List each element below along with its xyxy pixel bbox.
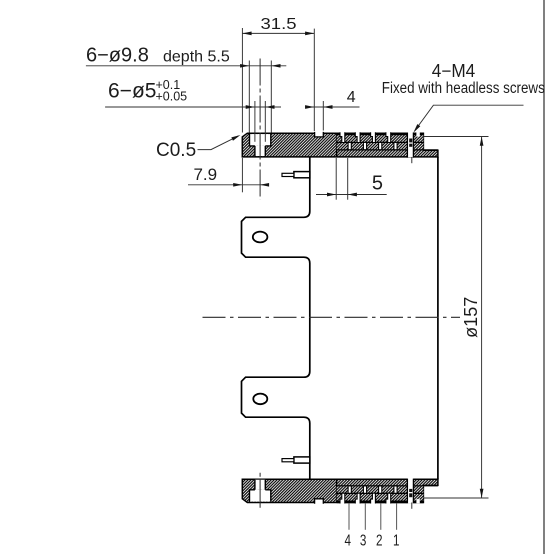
hole centerline bottom bbox=[259, 473, 261, 509]
top flange (section, hatched) bbox=[242, 133, 438, 157]
svg-text:6−ø9.8: 6−ø9.8 bbox=[86, 44, 149, 66]
svg-text:2: 2 bbox=[376, 533, 383, 550]
hole in top tab bbox=[253, 232, 268, 243]
dimension 7.9 bbox=[188, 158, 268, 192]
svg-text:4−M4: 4−M4 bbox=[432, 61, 476, 81]
dimension 5 bbox=[316, 158, 387, 200]
wire terminal bottom bbox=[282, 457, 310, 463]
body outline right bbox=[437, 157, 439, 479]
dimension 31.5 bbox=[242, 28, 314, 133]
bottom flange (section, hatched) bbox=[242, 479, 438, 502]
hole in bottom tab bbox=[253, 394, 267, 405]
dimension Ø157 bbox=[423, 137, 488, 499]
svg-text:6−ø5: 6−ø5 bbox=[108, 80, 156, 103]
through hole Ø5 top flange bbox=[255, 146, 265, 156]
headless screw M4 top bbox=[407, 132, 413, 163]
svg-text:7.9: 7.9 bbox=[193, 165, 217, 184]
svg-text:4: 4 bbox=[347, 89, 356, 106]
comb ring grooves bottom flange bbox=[337, 479, 438, 503]
callout 6-Ø9.8 depth 5.5 bbox=[86, 61, 286, 133]
counterbore hole Ø9.8 bottom flange bbox=[250, 490, 271, 502]
svg-text:5: 5 bbox=[372, 173, 383, 195]
svg-text:Fixed with headless screws: Fixed with headless screws bbox=[382, 80, 545, 97]
notch 4mm top flange bbox=[315, 132, 324, 137]
notch 4mm bottom flange bbox=[315, 499, 324, 504]
through hole Ø5 bottom flange bbox=[255, 480, 265, 490]
body outline left with mounting tabs bbox=[242, 157, 310, 479]
ring position leaders 4 3 2 1 bbox=[349, 503, 397, 529]
svg-text:4: 4 bbox=[344, 533, 351, 550]
svg-text:C0.5: C0.5 bbox=[156, 140, 196, 161]
horizontal centerline bbox=[203, 316, 461, 318]
svg-text:ø157: ø157 bbox=[461, 297, 481, 338]
wire terminal top bbox=[282, 172, 310, 178]
counterbore hole Ø9.8 top flange bbox=[250, 134, 271, 146]
dimension 4 (notch) bbox=[305, 101, 360, 131]
hole centerline top bbox=[259, 59, 261, 200]
svg-text:+0.05: +0.05 bbox=[156, 90, 188, 104]
svg-text:3: 3 bbox=[360, 533, 367, 550]
callout 6-Ø5 +0.1/+0.05 bbox=[105, 101, 281, 142]
leader C0.5 chamfer bbox=[198, 136, 239, 150]
comb ring grooves top flange bbox=[337, 132, 438, 157]
svg-text:1: 1 bbox=[393, 533, 400, 550]
headless screw M4 bottom bbox=[407, 478, 413, 508]
leader 4-M4 fixed with headless screws bbox=[415, 105, 524, 131]
svg-text:31.5: 31.5 bbox=[261, 16, 297, 33]
border frame right bbox=[543, 0, 545, 554]
svg-text:depth 5.5: depth 5.5 bbox=[163, 48, 230, 65]
